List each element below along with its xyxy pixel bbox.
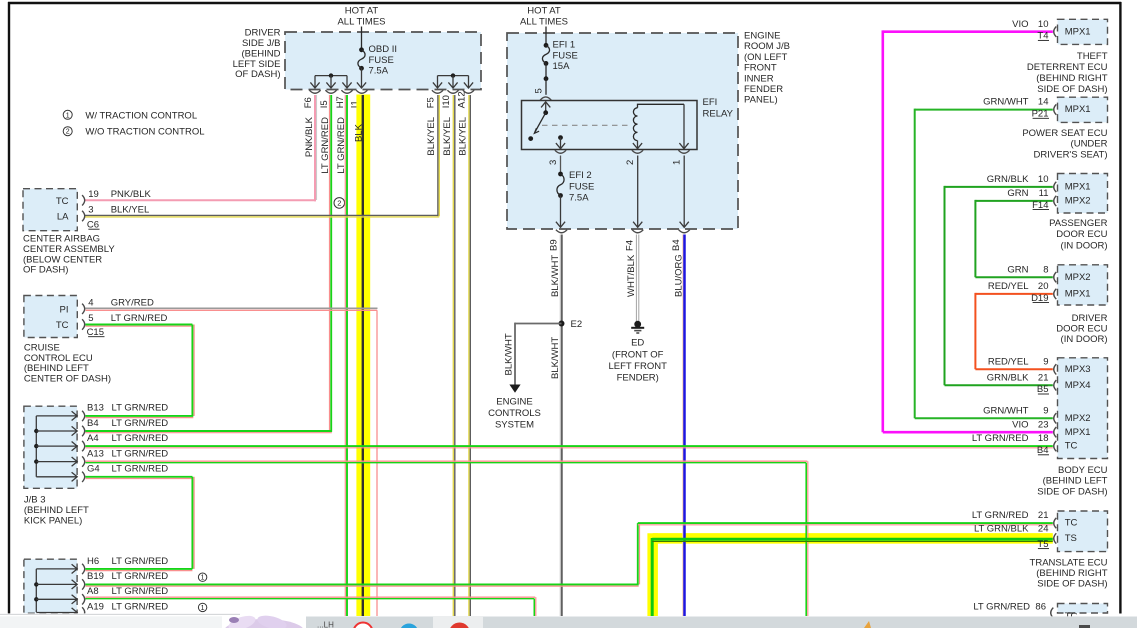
svg-text:MPX2: MPX2 <box>1065 272 1091 283</box>
wire LT GRN/RED cruise to B13 <box>86 325 195 416</box>
svg-text:CRUISE: CRUISE <box>24 342 60 353</box>
connector code C6 <box>87 219 100 230</box>
svg-text:(BEHIND RIGHT: (BEHIND RIGHT <box>1036 568 1107 579</box>
fuse EFI1 label <box>553 40 578 73</box>
connector B19 <box>82 571 168 589</box>
svg-text:5: 5 <box>534 88 545 93</box>
center airbag pins <box>56 196 69 223</box>
svg-text:LT GRN/RED: LT GRN/RED <box>111 313 168 324</box>
connector PI 4 <box>82 298 154 314</box>
fuse EFI 1 15A <box>542 43 549 81</box>
svg-text:PNK/BLK: PNK/BLK <box>111 189 152 200</box>
hot at all times (engine) <box>520 6 568 28</box>
svg-text:GRN/BLK: GRN/BLK <box>987 174 1029 185</box>
svg-text:20: 20 <box>1038 281 1049 292</box>
fuse OBD II 7.5A <box>358 47 365 70</box>
wire LT GRN/RED A8 <box>86 597 536 616</box>
wire EFI2 to B9 <box>556 196 565 228</box>
svg-text:10: 10 <box>1038 19 1049 30</box>
svg-text:I10: I10 <box>441 95 452 108</box>
svg-text:5: 5 <box>88 313 93 324</box>
driver J/B left bus bracket <box>310 73 351 88</box>
connector A13 <box>82 448 168 466</box>
wire relay1 to B4 <box>680 156 689 228</box>
connector TC 19 <box>82 189 151 206</box>
svg-text:W/O TRACTION CONTROL: W/O TRACTION CONTROL <box>85 127 204 138</box>
svg-text:CENTER OF DASH): CENTER OF DASH) <box>24 374 111 385</box>
svg-text:WHT/BLK: WHT/BLK <box>626 254 637 297</box>
svg-text:19: 19 <box>88 189 99 200</box>
wire LT GRN/BLK highlighted <box>652 538 1053 616</box>
svg-text:LT GRN/RED: LT GRN/RED <box>112 418 169 429</box>
connector translate TC 21 <box>972 510 1056 528</box>
wire BLK/YEL I10 <box>453 95 455 616</box>
svg-text:11: 11 <box>1039 188 1049 199</box>
svg-text:4: 4 <box>88 298 93 309</box>
svg-text:BLK/YEL: BLK/YEL <box>442 117 453 156</box>
wire LT GRN/RED H6 <box>86 569 193 571</box>
connector body MPX3 9 <box>988 356 1056 374</box>
svg-text:FUSE: FUSE <box>569 181 594 192</box>
highlight band LT GRN/BLK <box>653 533 1053 616</box>
svg-text:W/ TRACTION CONTROL: W/ TRACTION CONTROL <box>85 110 197 121</box>
svg-text:SIDE OF DASH): SIDE OF DASH) <box>1037 487 1107 498</box>
svg-text:LEFT FRONT: LEFT FRONT <box>608 361 667 372</box>
label BLK/YEL F5 <box>426 117 437 156</box>
connector B9 <box>549 230 568 251</box>
svg-text:2: 2 <box>66 129 70 136</box>
svg-text:(BEHIND LEFT: (BEHIND LEFT <box>1043 476 1108 487</box>
svg-text:HOT AT: HOT AT <box>345 6 379 17</box>
svg-text:J/B 3: J/B 3 <box>24 495 46 506</box>
svg-text:LT GRN/RED: LT GRN/RED <box>112 586 169 597</box>
wire LT GRN/RED I5 <box>86 95 332 433</box>
svg-text:MPX1: MPX1 <box>1065 182 1091 193</box>
svg-text:1: 1 <box>201 605 205 612</box>
engine room J/B label <box>744 31 790 106</box>
taskbar blue circle icon <box>400 624 419 628</box>
relay pin 1 output <box>679 104 688 148</box>
svg-text:SIDE OF DASH): SIDE OF DASH) <box>1037 84 1107 95</box>
relay pin 2 output <box>633 141 642 149</box>
svg-text:CENTER ASSEMBLY: CENTER ASSEMBLY <box>23 244 115 255</box>
svg-text:GRY/RED: GRY/RED <box>111 298 154 309</box>
J/B 3 internal bus <box>34 411 77 481</box>
svg-text:1: 1 <box>671 160 682 165</box>
svg-text:PASSENGER: PASSENGER <box>1049 218 1108 229</box>
svg-text:MPX1: MPX1 <box>1065 427 1091 438</box>
connector I5 <box>319 90 337 108</box>
connector code C15 <box>87 327 105 338</box>
wire GRN passenger <box>975 200 1052 277</box>
label LT GRN/RED I5 <box>320 117 331 174</box>
circled 1 on A19 <box>198 603 206 612</box>
connector seat MPX1 14 <box>983 97 1056 120</box>
wire LT GRN/RED A4 to body TC18 <box>86 446 1053 448</box>
connector body MPX4 21 <box>987 372 1057 395</box>
svg-text:EFI: EFI <box>703 97 718 108</box>
svg-text:14: 14 <box>1038 97 1049 108</box>
svg-text:ED: ED <box>631 338 644 349</box>
cruise control ECU box <box>24 296 77 338</box>
relay coil <box>633 108 637 141</box>
svg-text:OF DASH): OF DASH) <box>23 265 68 276</box>
svg-text:MPX1: MPX1 <box>1065 26 1091 37</box>
wire feed EFI1 <box>545 27 547 46</box>
ground ED <box>631 321 644 349</box>
connector driver MPX1 20 <box>988 281 1056 304</box>
relay switch arm <box>528 102 550 141</box>
bottom browser strip background <box>0 613 1137 628</box>
wire LT GRN/RED B19 to translate TC21 <box>86 523 1053 586</box>
fuse EFI 2 7.5A <box>557 172 564 198</box>
svg-text:...LH: ...LH <box>317 621 334 628</box>
svg-text:MPX1: MPX1 <box>1065 104 1091 115</box>
svg-text:BLU/ORG: BLU/ORG <box>673 254 684 297</box>
svg-text:DETERRENT ECU: DETERRENT ECU <box>1027 62 1108 73</box>
connector A4 <box>82 433 168 451</box>
svg-text:LT GRN/RED: LT GRN/RED <box>112 448 169 459</box>
wire BLK/WHT B9 <box>550 235 562 617</box>
svg-text:TRANSLATE ECU: TRANSLATE ECU <box>1030 557 1108 568</box>
connector driver MPX2 8 <box>1007 264 1056 282</box>
svg-text:(BEHIND LEFT: (BEHIND LEFT <box>24 505 89 516</box>
connector translate TS 24 <box>974 523 1056 550</box>
connector F6 <box>303 90 321 108</box>
svg-text:B4: B4 <box>671 239 682 251</box>
svg-text:FENDER: FENDER <box>744 84 783 95</box>
svg-text:23: 23 <box>1038 419 1049 430</box>
svg-text:TC: TC <box>56 196 69 207</box>
relay pin 1 connector <box>671 150 689 165</box>
svg-text:FUSE: FUSE <box>553 50 578 61</box>
wire VIO theft <box>883 30 1053 432</box>
wire GRN driver door <box>975 276 1052 278</box>
J/B 3 box <box>24 406 77 488</box>
svg-text:(ON LEFT: (ON LEFT <box>744 52 787 63</box>
connector TC 5 <box>82 313 167 330</box>
taskbar dots text <box>317 621 334 628</box>
svg-text:B9: B9 <box>549 239 560 251</box>
svg-text:MPX2: MPX2 <box>1065 413 1091 424</box>
relay pin 5 connector <box>534 88 552 100</box>
power seat ECU box <box>1058 97 1108 122</box>
ground ED label <box>608 350 667 384</box>
svg-text:B13: B13 <box>87 403 104 414</box>
connector bottom TC 86 <box>973 602 1053 618</box>
J/B 3 label <box>24 495 89 527</box>
connector B13 <box>82 403 168 422</box>
taskbar red ring icon <box>354 623 373 628</box>
svg-text:ALL TIMES: ALL TIMES <box>520 17 568 28</box>
body ECU label <box>1037 465 1107 498</box>
wire BLK I1 vertical <box>353 95 364 616</box>
svg-text:DRIVER: DRIVER <box>1072 313 1108 324</box>
OBD II fuse output arrow <box>357 68 366 88</box>
svg-text:ENGINE: ENGINE <box>496 397 532 408</box>
svg-text:PANEL): PANEL) <box>744 95 778 106</box>
svg-text:MPX1: MPX1 <box>1065 289 1091 300</box>
svg-text:GRN/WHT: GRN/WHT <box>983 97 1029 108</box>
connector A12 <box>456 90 474 108</box>
svg-text:GRN: GRN <box>1007 188 1028 199</box>
svg-text:SIDE OF DASH): SIDE OF DASH) <box>1037 578 1107 589</box>
svg-text:TS: TS <box>1065 533 1077 544</box>
svg-text:DRIVER: DRIVER <box>245 28 281 39</box>
svg-text:21: 21 <box>1038 372 1049 383</box>
connector LA 3 <box>82 205 149 222</box>
connector I10 <box>441 90 459 108</box>
wire relay2 to F4 <box>633 156 642 228</box>
connector H6 <box>82 556 168 574</box>
svg-text:LT GRN/BLK: LT GRN/BLK <box>974 523 1029 534</box>
svg-text:1: 1 <box>201 575 205 582</box>
svg-text:7.5A: 7.5A <box>569 193 589 204</box>
legend note 1 (w/ traction control) <box>63 110 197 121</box>
connector body MPX2 9 <box>983 405 1056 423</box>
svg-text:TC: TC <box>1065 441 1078 452</box>
relay pin 3 connector <box>548 150 566 165</box>
svg-text:DOOR ECU: DOOR ECU <box>1056 229 1107 240</box>
circled 2 on wire <box>334 198 345 209</box>
svg-text:21: 21 <box>1038 510 1049 521</box>
J/B 3 lower internal bus <box>34 564 77 617</box>
wire BLK/WHT branch to engine controls <box>504 323 562 393</box>
svg-text:3: 3 <box>548 160 559 165</box>
connector A8 <box>82 586 168 604</box>
connector B4 jb3 <box>82 418 168 436</box>
wire BLU/ORG B4 <box>673 235 684 617</box>
svg-text:CENTER AIRBAG: CENTER AIRBAG <box>23 234 100 245</box>
svg-text:H6: H6 <box>87 556 99 567</box>
taskbar red circle icon <box>449 623 470 628</box>
svg-text:DRIVER'S SEAT): DRIVER'S SEAT) <box>1034 149 1108 160</box>
svg-text:VIO: VIO <box>1012 19 1028 30</box>
svg-text:(BEHIND RIGHT: (BEHIND RIGHT <box>1036 73 1107 84</box>
svg-text:BLK/YEL: BLK/YEL <box>111 205 150 216</box>
circled 1 on B19 <box>198 573 206 582</box>
svg-text:F5: F5 <box>425 97 436 108</box>
svg-text:H7: H7 <box>335 96 346 108</box>
svg-text:F4: F4 <box>625 240 636 251</box>
center airbag label <box>23 234 115 276</box>
svg-text:BLK/WHT: BLK/WHT <box>550 337 561 379</box>
svg-text:PNK/BLK: PNK/BLK <box>304 116 315 157</box>
svg-text:LT GRN/RED: LT GRN/RED <box>112 464 169 475</box>
svg-text:2: 2 <box>337 199 341 208</box>
translate ECU box <box>1058 511 1108 552</box>
svg-text:ALL TIMES: ALL TIMES <box>337 17 385 28</box>
cruise control pins <box>56 304 69 331</box>
svg-text:LT GRN/RED: LT GRN/RED <box>972 510 1029 521</box>
svg-text:A4: A4 <box>87 433 99 444</box>
svg-text:E2: E2 <box>571 319 583 330</box>
relay pin 3 output <box>556 135 565 148</box>
wire GRN/WHT body MPX2 <box>915 417 1053 419</box>
driver door ECU label <box>1056 313 1107 345</box>
svg-text:LA: LA <box>57 212 69 223</box>
svg-text:RELAY: RELAY <box>703 109 734 120</box>
svg-text:MPX2: MPX2 <box>1065 196 1091 207</box>
svg-text:LEFT SIDE: LEFT SIDE <box>233 59 281 70</box>
wire LT GRN/RED A13 <box>86 461 808 616</box>
connector body MPX1 23 <box>1012 419 1056 437</box>
svg-text:BLK: BLK <box>353 123 364 142</box>
taskbar orange arrow icon <box>864 621 871 628</box>
svg-text:F6: F6 <box>303 97 314 108</box>
engine controls system label <box>488 397 541 431</box>
label BLK/YEL I10 <box>442 117 453 156</box>
wire BLK/YEL F5 <box>85 95 439 217</box>
svg-text:18: 18 <box>1038 433 1049 444</box>
svg-text:LT GRN/RED: LT GRN/RED <box>973 602 1030 613</box>
svg-text:T4: T4 <box>1037 31 1048 42</box>
wire GRN/WHT seat <box>915 109 1053 419</box>
passenger door ECU box <box>1058 174 1108 214</box>
svg-text:(BELOW CENTER: (BELOW CENTER <box>23 254 102 265</box>
svg-text:LT GRN/RED: LT GRN/RED <box>972 433 1029 444</box>
svg-text:8: 8 <box>1043 264 1048 275</box>
wire GRN/BLK passenger <box>945 186 1053 385</box>
connector theft MPX1 10 <box>1012 19 1056 42</box>
svg-text:BLK/WHT: BLK/WHT <box>504 333 515 375</box>
connector passenger MPX2 11 <box>1007 188 1056 211</box>
wire LT GRN/RED G4 to H6 <box>86 477 195 569</box>
svg-text:15A: 15A <box>553 61 571 72</box>
wire RED/YEL body MPX3 <box>975 368 1052 370</box>
theft deterrent ECU box <box>1058 19 1108 44</box>
wire relay3 to EFI2 fuse <box>560 156 562 175</box>
svg-text:TC: TC <box>1065 518 1078 529</box>
svg-text:1: 1 <box>66 112 70 119</box>
label BLK/YEL A12 <box>457 117 468 156</box>
power seat ECU label <box>1022 128 1107 160</box>
fuse EFI2 label <box>569 170 594 204</box>
svg-text:KICK PANEL): KICK PANEL) <box>24 515 82 526</box>
label PNK/BLK <box>304 116 315 157</box>
connector H7 <box>335 90 353 108</box>
wire PNK/BLK F6 <box>85 95 317 201</box>
center airbag assembly box <box>23 189 77 231</box>
connector A19 <box>82 601 168 617</box>
svg-text:MPX4: MPX4 <box>1065 380 1091 391</box>
cruise control label <box>24 342 111 384</box>
bottom ECU box (partial) <box>1058 604 1108 623</box>
svg-text:THEFT: THEFT <box>1077 51 1108 62</box>
translate ECU label <box>1030 557 1108 589</box>
J/B 3 lower box <box>24 559 77 613</box>
svg-text:MPX3: MPX3 <box>1065 364 1091 375</box>
svg-text:LT GRN/RED: LT GRN/RED <box>112 571 169 582</box>
engine room J/B box <box>507 33 738 229</box>
svg-text:ENGINE: ENGINE <box>744 31 780 42</box>
wire EFI1 to relay pin 5 <box>545 79 547 95</box>
svg-text:(IN DOOR): (IN DOOR) <box>1061 241 1108 252</box>
svg-text:(BEHIND LEFT: (BEHIND LEFT <box>24 363 89 374</box>
passenger door ECU label <box>1049 218 1108 252</box>
svg-text:LT GRN/RED: LT GRN/RED <box>112 556 169 567</box>
svg-text:FENDER): FENDER) <box>617 373 659 384</box>
svg-text:FUSE: FUSE <box>369 55 394 66</box>
svg-text:A8: A8 <box>87 586 99 597</box>
svg-text:BLK/YEL: BLK/YEL <box>426 117 437 156</box>
svg-text:INNER: INNER <box>744 73 774 84</box>
wire LT GRN/RED H7 <box>345 95 347 616</box>
svg-text:OF DASH): OF DASH) <box>235 69 280 80</box>
svg-text:EFI 2: EFI 2 <box>569 170 592 181</box>
svg-text:7.5A: 7.5A <box>369 66 389 77</box>
svg-text:DOOR ECU: DOOR ECU <box>1056 323 1107 334</box>
svg-text:LT GRN/RED: LT GRN/RED <box>112 433 169 444</box>
svg-text:PI: PI <box>60 304 69 315</box>
legend note 2 (w/o traction control) <box>63 127 204 138</box>
EFI relay label <box>703 97 734 120</box>
svg-text:VIO: VIO <box>1012 419 1028 430</box>
connector B4 <box>671 230 690 251</box>
svg-text:3: 3 <box>88 205 93 216</box>
svg-text:LT GRN/RED: LT GRN/RED <box>112 403 169 414</box>
connector passenger MPX1 10 <box>987 174 1057 192</box>
svg-text:86: 86 <box>1035 602 1046 613</box>
connector G4 <box>82 464 168 483</box>
relay switch dashed link <box>542 124 632 126</box>
svg-text:(FRONT OF: (FRONT OF <box>612 350 664 361</box>
svg-text:GRN/WHT: GRN/WHT <box>983 405 1029 416</box>
svg-text:RED/YEL: RED/YEL <box>988 281 1029 292</box>
node E2 <box>559 319 583 330</box>
svg-text:GRN: GRN <box>1007 264 1028 275</box>
wire VIO body MPX1 <box>883 431 1053 434</box>
svg-text:GRN/BLK: GRN/BLK <box>987 372 1029 383</box>
svg-text:CONTROLS: CONTROLS <box>488 408 541 419</box>
svg-text:SIDE J/B: SIDE J/B <box>242 38 281 49</box>
connector F5 <box>425 90 443 108</box>
wire feed to OBD II fuse <box>361 27 363 50</box>
connector I1 <box>350 90 368 108</box>
svg-text:FRONT: FRONT <box>744 63 777 74</box>
svg-text:ROOM J/B: ROOM J/B <box>744 41 790 52</box>
svg-text:CONTROL ECU: CONTROL ECU <box>24 353 93 364</box>
highlight band BLK wire <box>356 95 370 617</box>
connector body TC 18 <box>972 433 1056 456</box>
wire WHT/BLK F4 <box>626 235 639 322</box>
svg-text:OBD II: OBD II <box>369 44 398 55</box>
svg-text:A12: A12 <box>456 91 467 108</box>
svg-text:RED/YEL: RED/YEL <box>988 356 1029 367</box>
wire BLK/YEL A12 <box>469 95 470 616</box>
svg-text:I5: I5 <box>319 100 330 108</box>
svg-text:9: 9 <box>1043 356 1048 367</box>
hot at all times (left) <box>337 6 385 28</box>
svg-text:9: 9 <box>1043 405 1048 416</box>
svg-text:(BEHIND: (BEHIND <box>241 48 280 59</box>
wire LT GRN/RED B13 <box>86 416 194 418</box>
svg-text:(UNDER: (UNDER <box>1071 139 1108 150</box>
theft deterrent ECU label <box>1027 51 1108 95</box>
svg-text:POWER SEAT ECU: POWER SEAT ECU <box>1022 128 1107 139</box>
driver side J/B box <box>285 32 481 90</box>
svg-text:LT GRN/RED: LT GRN/RED <box>112 601 169 612</box>
fuse OBD II label <box>369 44 398 76</box>
driver door ECU box <box>1058 265 1108 305</box>
svg-text:A19: A19 <box>87 601 104 612</box>
svg-text:HOT AT: HOT AT <box>527 6 561 17</box>
relay coil link to pin 1 <box>638 104 685 108</box>
svg-text:24: 24 <box>1038 523 1049 534</box>
svg-text:G4: G4 <box>87 464 100 475</box>
relay pin 2 connector <box>625 150 643 165</box>
svg-text:P21: P21 <box>1032 109 1049 120</box>
